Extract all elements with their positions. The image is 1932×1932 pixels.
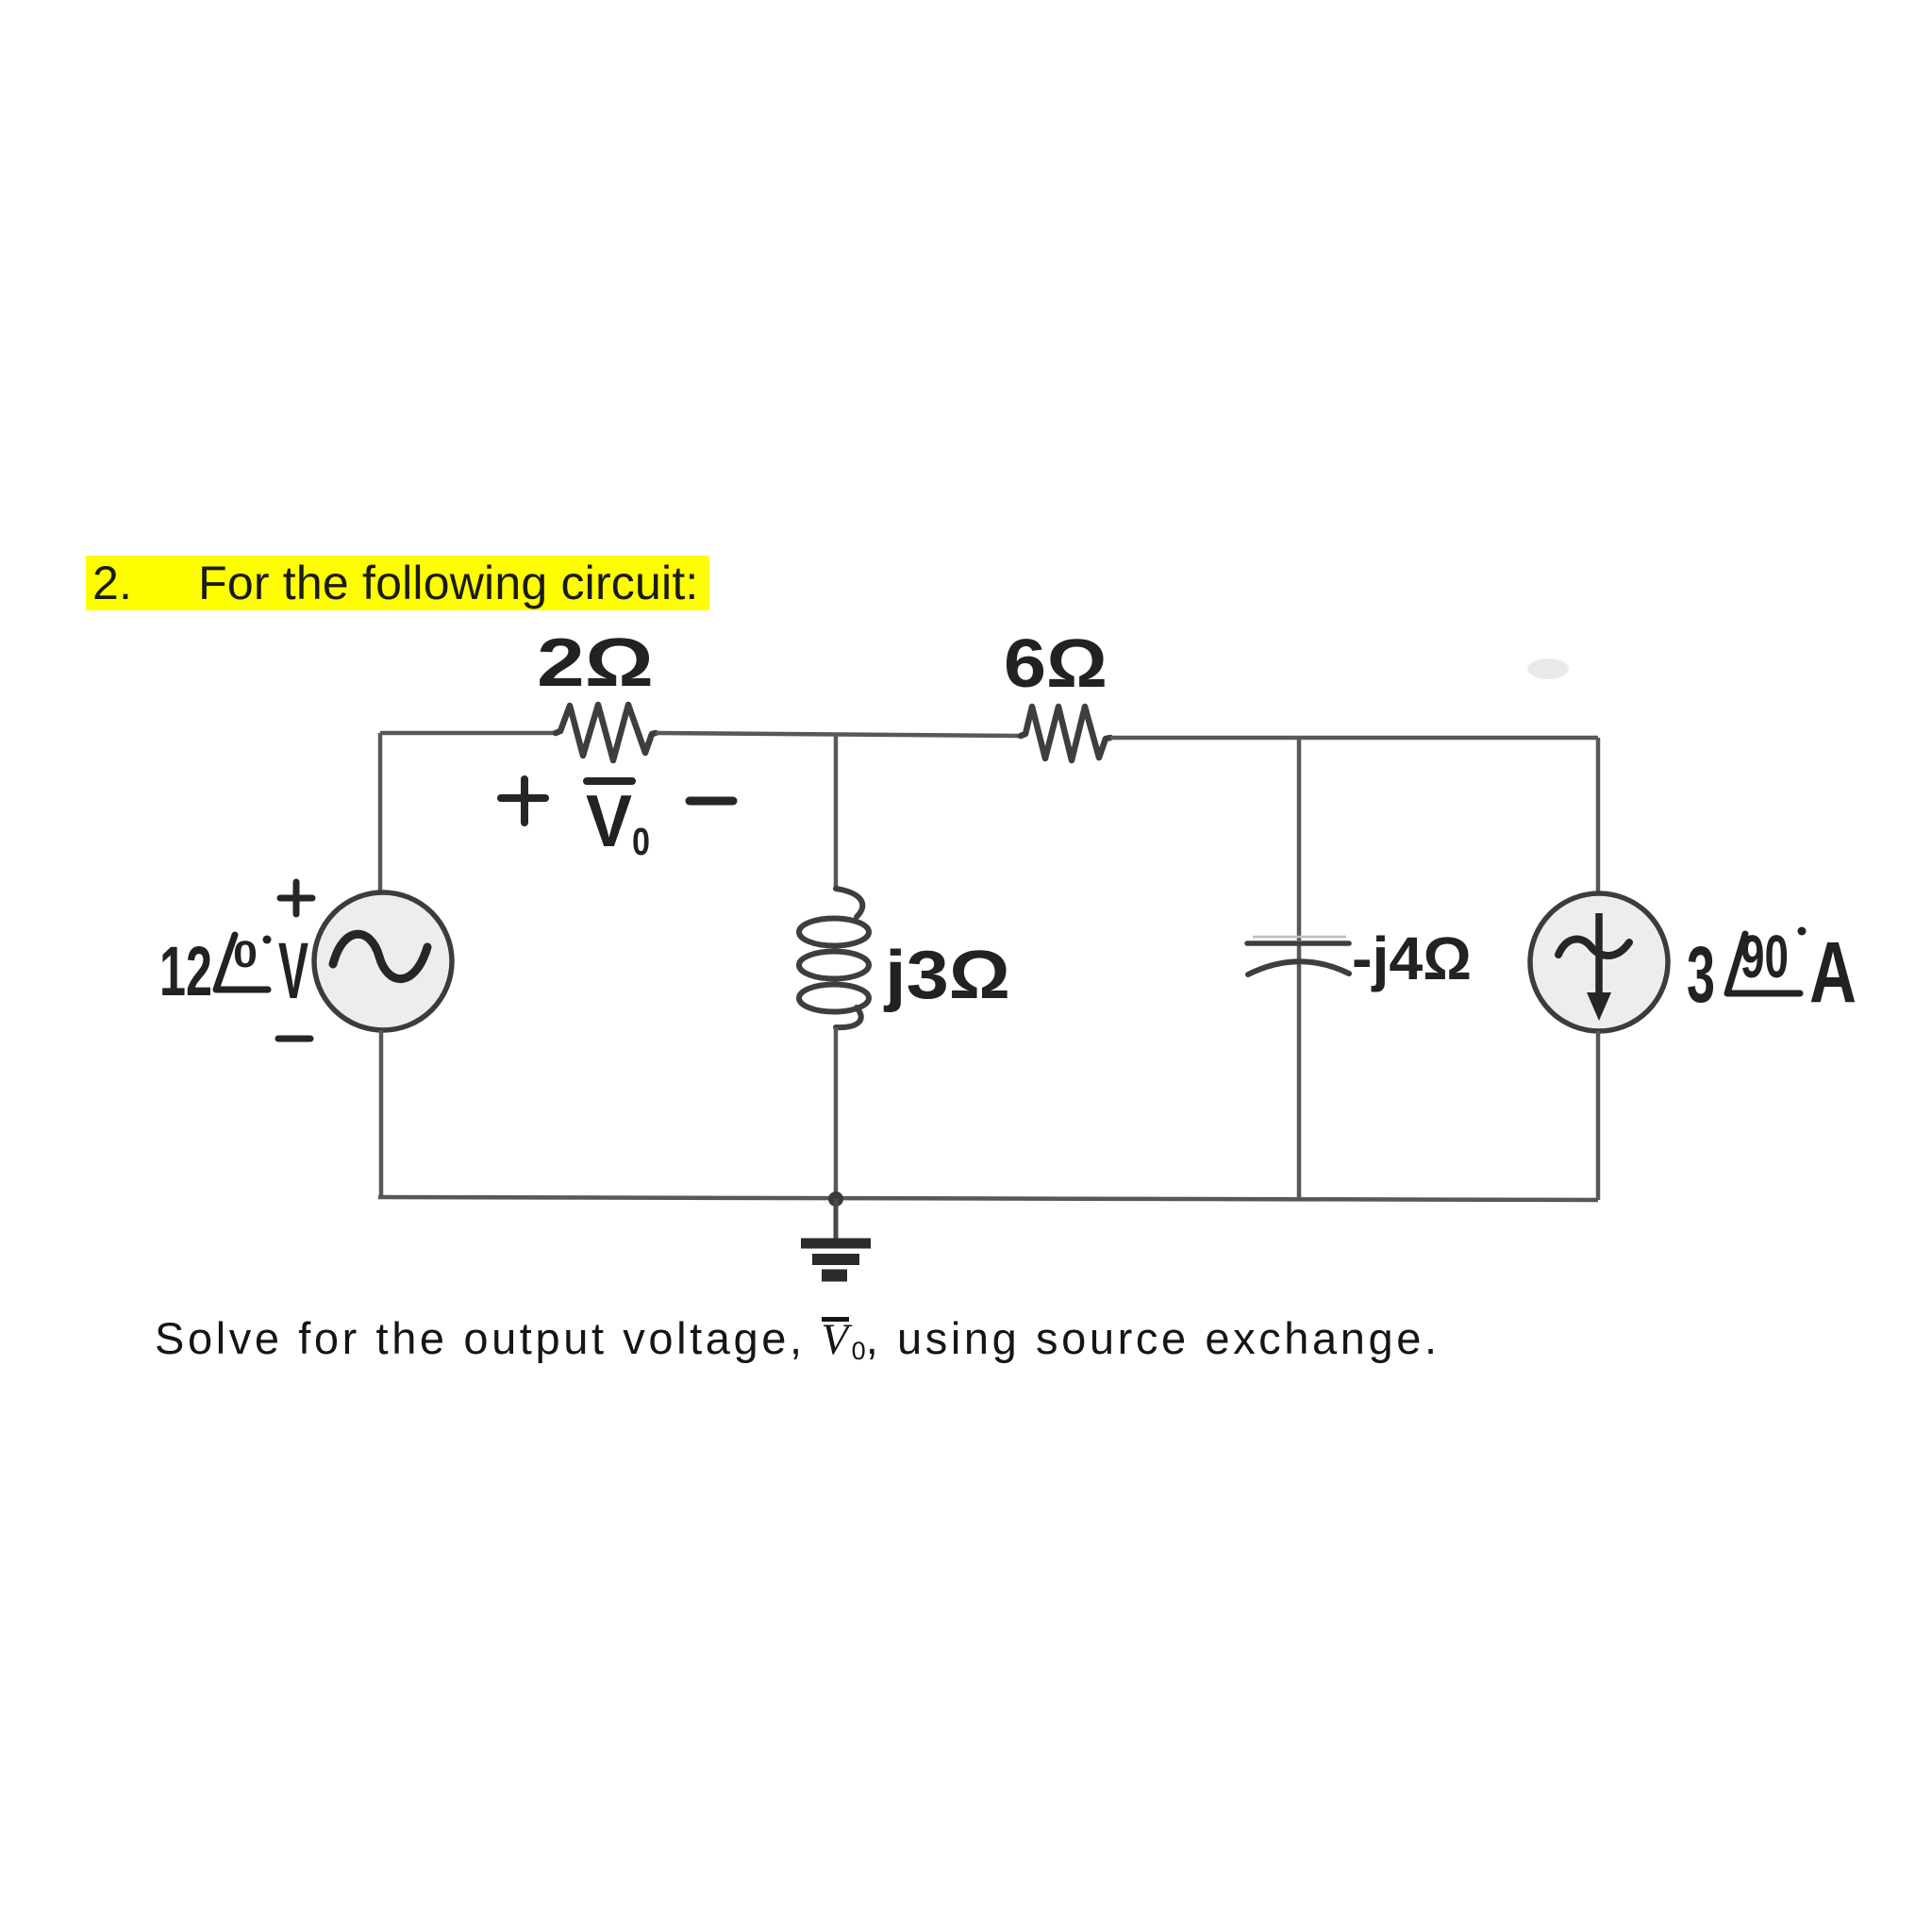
- svg-text:0: 0: [632, 820, 650, 863]
- minus below V1: [278, 1036, 310, 1042]
- wire right vertical lower: [1596, 1031, 1601, 1200]
- wire left vertical upper: [378, 733, 383, 893]
- sine wave inside V1: [333, 934, 427, 978]
- wire inductor branch lower: [834, 1027, 839, 1199]
- svg-text:90: 90: [1740, 923, 1789, 991]
- minus sign of Vo: [690, 797, 733, 806]
- wire capacitor branch: [1297, 738, 1302, 941]
- svg-text:0: 0: [233, 934, 258, 975]
- capacitor C1 top plate: [1253, 936, 1346, 939]
- capacitor C1 curved plate: [1248, 961, 1349, 974]
- svg-text:V: V: [586, 779, 632, 862]
- node junction dot: [828, 1191, 843, 1207]
- svg-text:-j4Ω: -j4Ω: [1352, 924, 1472, 992]
- current source I1 circle: [1530, 893, 1668, 1031]
- plus sign of Vo: [501, 779, 545, 823]
- wire top-right (R2 to corner): [1110, 736, 1598, 741]
- svg-text:3: 3: [1687, 930, 1715, 1019]
- tilde inside I1: [1558, 940, 1629, 957]
- resistor R2 6ohm zigzag: [1021, 707, 1110, 760]
- svg-text:12: 12: [159, 932, 212, 1010]
- plus above V1: [280, 882, 312, 914]
- svg-text:j3Ω: j3Ω: [883, 938, 1010, 1013]
- wire right vertical upper: [1596, 738, 1601, 893]
- faint scan smudge: [1527, 658, 1569, 679]
- svg-text:A: A: [1809, 924, 1857, 1021]
- question line: [155, 1309, 1441, 1380]
- wire top-left (source to R1): [380, 731, 556, 736]
- wire left vertical lower: [379, 1030, 384, 1197]
- arrow inside I1: [1595, 913, 1603, 998]
- Vo label with overbar: [587, 777, 632, 785]
- heading: problem statement with yellow highlight: [86, 556, 709, 610]
- wire inductor branch upper: [834, 735, 839, 889]
- voltage source V1 circle: [314, 892, 452, 1030]
- svg-text:6Ω: 6Ω: [1004, 626, 1108, 702]
- inductor L1 coil: [836, 889, 862, 917]
- svg-text:V: V: [278, 926, 308, 1015]
- resistor R1 2ohm zigzag: [556, 705, 656, 760]
- wire bottom: [378, 1197, 1598, 1200]
- wire top-mid (R1 to node A): [656, 733, 1021, 736]
- ground: [834, 1199, 839, 1240]
- svg-text:2Ω: 2Ω: [537, 625, 654, 701]
